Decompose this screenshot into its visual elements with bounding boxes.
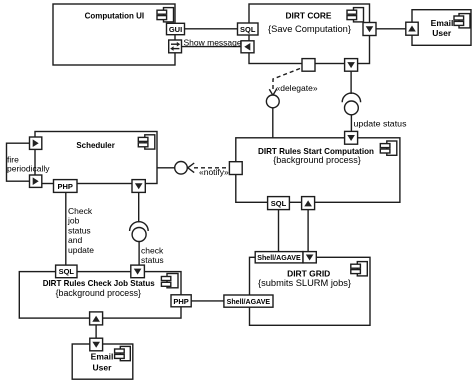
socket check status — [130, 222, 149, 231]
svg-text:status: status — [141, 255, 164, 265]
ball delegate interface — [266, 95, 279, 108]
svg-text:Shell/AGAVE: Shell/AGAVE — [257, 253, 301, 262]
label check status — [141, 245, 164, 264]
component DIRT CORE — [249, 4, 370, 64]
port down arrow Email User bottom — [90, 338, 103, 351]
port right arrow Scheduler bottom left — [30, 175, 42, 187]
wire update status from DIRT CORE — [350, 71, 352, 94]
label fire periodically — [7, 154, 50, 173]
component Scheduler — [35, 132, 157, 184]
component Email User top — [412, 10, 471, 46]
wire update status ball to Start Computation — [350, 115, 352, 132]
component icon Email User top — [454, 14, 470, 28]
svg-text:«notify»: «notify» — [199, 167, 229, 177]
port SQL DIRT CORE — [238, 23, 259, 35]
wire SQL to Shell/AGAVE — [278, 210, 280, 252]
svg-text:SQL: SQL — [240, 25, 256, 34]
component Computation UI — [53, 4, 175, 65]
wire Scheduler self loop fire periodically — [7, 143, 30, 181]
port SQL Check Job Status top — [56, 265, 77, 278]
svg-text:User: User — [93, 363, 113, 373]
svg-text:check: check — [141, 245, 164, 255]
svg-text:update status: update status — [354, 119, 407, 129]
svg-text:{submits SLURM jobs}: {submits SLURM jobs} — [258, 278, 351, 288]
svg-text:GUI: GUI — [169, 25, 182, 34]
port down arrow DIRT CORE bottom — [345, 59, 358, 72]
port PHP Scheduler — [54, 180, 78, 193]
dashed dependency notify — [194, 167, 229, 169]
port down arrow DIRT CORE right — [363, 23, 376, 36]
component DIRT Rules Check Job Status — [19, 272, 181, 319]
component icon DIRT Rules Start Computation — [380, 141, 397, 155]
wire DIRT CORE to Email User — [376, 28, 406, 30]
wire Show message (arrows port to socket port) — [182, 46, 242, 48]
port down arrow DIRT GRID top — [303, 252, 316, 263]
wire PHP to Shell/AGAVE left — [191, 300, 224, 302]
wire Scheduler to check status socket — [138, 192, 140, 222]
svg-text:Show message: Show message — [184, 37, 242, 47]
svg-text:PHP: PHP — [173, 297, 188, 306]
svg-text:DIRT Rules Check Job Status: DIRT Rules Check Job Status — [43, 278, 155, 288]
wire GUI to SQL — [185, 28, 238, 30]
svg-text:SQL: SQL — [59, 267, 75, 276]
port SQL Start Computation bottom — [268, 197, 290, 210]
component icon Computation UI — [157, 8, 174, 22]
svg-text:DIRT GRID: DIRT GRID — [287, 268, 330, 278]
svg-text:Shell/AGAVE: Shell/AGAVE — [227, 297, 271, 306]
svg-text:DIRT CORE: DIRT CORE — [286, 10, 332, 20]
port Show message arrows — [169, 40, 182, 53]
port down arrow Check Job Status top — [131, 265, 145, 278]
svg-text:{background process}: {background process} — [273, 155, 361, 165]
svg-text:Computation UI: Computation UI — [85, 10, 145, 20]
svg-text:update: update — [68, 245, 94, 255]
wire Check Job Status to Email User — [95, 325, 97, 338]
svg-text:status: status — [68, 225, 91, 235]
port GUI — [167, 23, 185, 34]
component icon DIRT CORE — [347, 8, 364, 22]
label Check job status and update — [67, 206, 94, 255]
svg-text:and: and — [68, 235, 82, 245]
port down arrow Start Computation top — [345, 131, 358, 144]
port PHP Check Job Status right — [171, 295, 191, 307]
svg-text:User: User — [432, 28, 452, 38]
svg-text:Email: Email — [431, 18, 454, 28]
component DIRT GRID — [250, 257, 371, 325]
ball check status — [132, 228, 146, 242]
port square notify Start Computation left — [229, 162, 242, 175]
svg-text:SQL: SQL — [271, 199, 287, 208]
component Email User bottom — [72, 344, 133, 379]
port up arrow Email User top — [406, 22, 418, 35]
svg-text:«delegate»: «delegate» — [276, 83, 318, 93]
component icon DIRT GRID — [351, 262, 368, 276]
open arrow notify — [188, 163, 194, 173]
port up arrow Check Job Status bottom — [90, 312, 103, 325]
wire PHP to SQL check job — [65, 192, 67, 265]
port up arrow Start Computation bottom — [302, 197, 315, 210]
component icon Scheduler — [138, 135, 155, 149]
svg-text:Scheduler: Scheduler — [76, 140, 115, 150]
svg-text:periodically: periodically — [7, 163, 50, 173]
wire Scheduler to notify ball — [157, 167, 174, 169]
port right arrow Scheduler top left — [30, 137, 42, 149]
svg-text:Email: Email — [91, 351, 114, 361]
wire check status ball to DIRT Rules Check — [138, 242, 140, 266]
port Shell/AGAVE DIRT GRID top — [255, 252, 303, 263]
svg-text:job: job — [67, 216, 80, 226]
wire delegate ball to Start Computation top — [272, 108, 274, 138]
svg-text:{background process}: {background process} — [56, 288, 141, 298]
component DIRT Rules Start Computation — [236, 138, 400, 203]
svg-text:{Save Computation}: {Save Computation} — [268, 24, 351, 34]
svg-text:Check: Check — [68, 206, 93, 216]
component icon Email User bottom — [115, 346, 131, 360]
component icon DIRT Rules Check Job Status — [161, 274, 178, 288]
wire Start Computation to DIRT GRID — [307, 210, 309, 252]
port down arrow Scheduler bottom — [132, 180, 145, 193]
port Shell/AGAVE DIRT GRID left — [224, 295, 273, 307]
dashed dependency delegate — [269, 69, 300, 96]
socket update status — [342, 93, 360, 102]
svg-text:PHP: PHP — [57, 182, 72, 191]
ball notify interface — [175, 162, 188, 175]
port left arrow DIRT CORE — [241, 41, 254, 53]
ball update status — [345, 101, 359, 115]
port square delegate DIRT CORE bottom — [302, 59, 315, 72]
